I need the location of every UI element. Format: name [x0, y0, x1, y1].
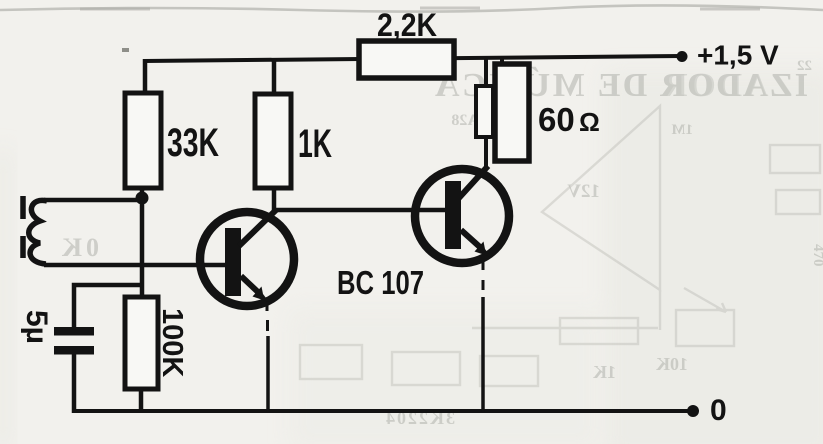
- svg-text:BC 107: BC 107: [337, 264, 424, 301]
- terminal dot +1.5V: [677, 51, 688, 62]
- svg-text:470: 470: [810, 244, 823, 267]
- wire: coil bottom lead to Q1 base: [44, 263, 228, 268]
- transistor Q1 emitter arrowhead: [253, 287, 270, 303]
- inductor L1 core dash 2: [20, 236, 26, 258]
- wire: Q2 emitter drop dashes: [482, 262, 485, 290]
- svg-text:22: 22: [797, 58, 812, 74]
- resistor R2 1K: [255, 94, 291, 188]
- wire: top +1.5V rail: [144, 56, 682, 61]
- inductor L1 core dash 1: [20, 196, 26, 219]
- transistor Q2 emitter arrowhead: [475, 242, 492, 258]
- svg-text:2,2K: 2,2K: [377, 7, 437, 43]
- transistor Q1 collector lead: [239, 210, 276, 246]
- wire: capacitor C1 top lead: [74, 285, 142, 329]
- svg-text:33K: 33K: [167, 121, 219, 165]
- wire: Q1 collector node to Q2 base: [272, 208, 447, 213]
- inductor L1 coil: [29, 200, 47, 264]
- wire: coil top lead: [44, 198, 142, 203]
- wire: small resistor to Q2 collector: [484, 137, 488, 168]
- transistor Q1 BC107 circle: [200, 212, 294, 306]
- transistor Q1 base bar: [225, 228, 241, 296]
- wire: stub R1 bottom to node A: [140, 188, 145, 198]
- resistor R3 2.2K: [359, 41, 454, 78]
- svg-text:100K: 100K: [156, 308, 188, 377]
- wire: stub from rail to R2 top: [272, 59, 277, 96]
- resistor R1 33K: [125, 93, 161, 188]
- svg-text:+1,5 V: +1,5 V: [697, 40, 779, 71]
- svg-text:0: 0: [710, 394, 727, 427]
- svg-text:0K: 0K: [58, 233, 99, 262]
- wire: Q2 emitter to ground rail: [481, 297, 485, 412]
- svg-text:1K: 1K: [593, 362, 616, 382]
- terminal dot 0V: [687, 405, 699, 417]
- transistor Q1 emitter lead: [241, 276, 259, 293]
- wire: stub rail to earphone top: [500, 58, 504, 66]
- wire: stub R4 bottom to ground rail: [139, 389, 144, 411]
- wire: node A down to R4 top: [140, 198, 145, 298]
- svg-text:60: 60: [538, 101, 575, 138]
- wire: capacitor C1 bottom lead: [72, 354, 77, 413]
- wire: stub R2 bottom to Q1 collector node: [272, 188, 277, 212]
- node A junction dot: [136, 192, 149, 205]
- wire: stub rail to small series resistor: [484, 58, 488, 88]
- resistor small series element above Q2 collector: [476, 86, 493, 137]
- wire: stub from rail to R1 top: [143, 59, 148, 95]
- capacitor C1 top plate: [54, 327, 94, 336]
- wire: Q1 emitter to ground rail: [266, 336, 270, 412]
- svg-text:Ω: Ω: [579, 107, 600, 137]
- svg-text:5µ: 5µ: [20, 310, 53, 344]
- earphone 60 ohm body: [495, 64, 529, 161]
- svg-text:1K: 1K: [298, 122, 332, 166]
- transistor Q2 emitter lead: [461, 230, 481, 248]
- wire: bottom 0V rail: [74, 409, 694, 413]
- transistor Q2 collector lead: [458, 166, 488, 199]
- svg-text:10K: 10K: [656, 354, 688, 374]
- transistor Q2 base bar: [445, 181, 461, 249]
- svg-text:IZADOR: IZADOR: [663, 67, 808, 104]
- capacitor C1 bottom plate: [54, 346, 94, 355]
- transistor Q2 BC107 circle: [415, 169, 509, 263]
- wire: Q1 emitter drop dashes: [266, 305, 270, 331]
- svg-text:1M: 1M: [671, 122, 693, 138]
- resistor R4 100K: [125, 297, 158, 389]
